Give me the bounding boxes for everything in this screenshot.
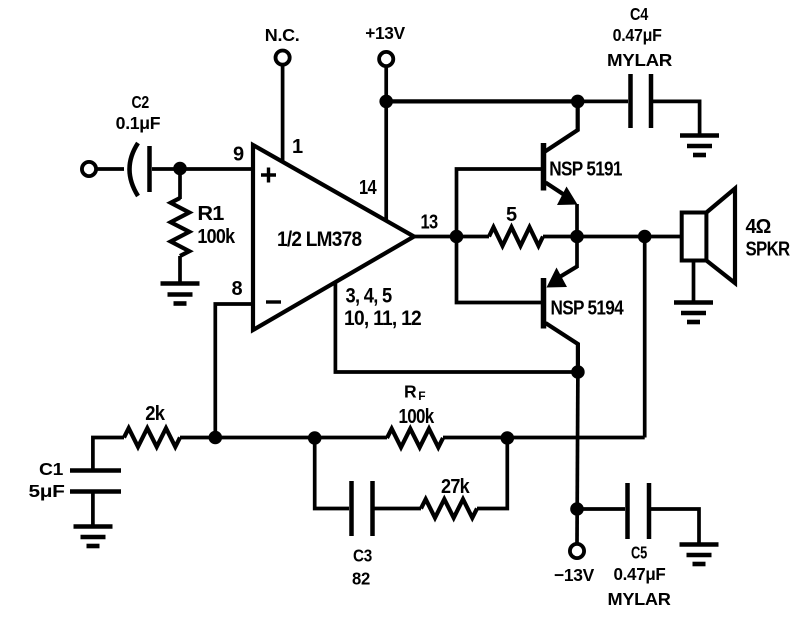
wire +13V to pin 14 xyxy=(384,66,388,221)
wire C4 to ground xyxy=(653,101,700,135)
svg-text:NSP 5191: NSP 5191 xyxy=(549,159,622,181)
svg-text:MYLAR: MYLAR xyxy=(607,50,673,70)
svg-text:27k: 27k xyxy=(441,476,471,498)
svg-text:13: 13 xyxy=(421,212,439,234)
plus mark xyxy=(261,168,276,183)
svg-text:SPKR: SPKR xyxy=(746,239,791,261)
ground at C5 xyxy=(680,545,719,565)
transistor Q2 NSP5194 xyxy=(541,278,547,329)
svg-text:3, 4, 5: 3, 4, 5 xyxy=(346,285,393,308)
wire -13V line xyxy=(575,372,580,544)
Q1/Q2 base rail xyxy=(457,169,542,303)
node junction at Q2 collector xyxy=(571,365,585,379)
svg-text:C3: C3 xyxy=(353,546,372,566)
resistor RF xyxy=(387,429,443,448)
svg-text:C4: C4 xyxy=(630,4,648,24)
svg-text:2k: 2k xyxy=(145,403,166,425)
ground at C4 xyxy=(680,136,719,156)
wire bias pins to -13V rail xyxy=(335,281,578,372)
ground under C1 xyxy=(74,527,113,547)
ground under speaker xyxy=(674,303,713,323)
wire R1 to ground xyxy=(178,256,182,283)
wire to C4 xyxy=(578,100,628,104)
capacitor C1 xyxy=(70,468,121,473)
svg-text:NSP 5194: NSP 5194 xyxy=(551,298,625,320)
resistor 27k xyxy=(421,499,477,518)
svg-text:F: F xyxy=(418,389,425,403)
node junction feedback takeoff xyxy=(638,230,652,244)
svg-text:1/2 LM378: 1/2 LM378 xyxy=(277,228,362,251)
node junction base rail on output line xyxy=(450,230,464,244)
svg-text:0.1μF: 0.1μF xyxy=(116,113,161,133)
wire speaker to ground xyxy=(692,261,696,303)
svg-text:10, 11, 12: 10, 11, 12 xyxy=(344,307,421,330)
svg-text:4Ω: 4Ω xyxy=(746,216,772,238)
node junction at C4 xyxy=(571,95,585,109)
capacitor C5 xyxy=(625,483,630,539)
wire to C3 branch xyxy=(315,438,349,509)
minus mark xyxy=(266,300,281,303)
wire output to feedback xyxy=(643,237,647,438)
wire op-amp output pin 13 xyxy=(414,235,489,239)
resistor 5 xyxy=(489,227,543,246)
svg-text:9: 9 xyxy=(233,144,244,166)
wire input to C2 xyxy=(96,167,124,171)
svg-text:R1: R1 xyxy=(197,203,224,225)
svg-text:0.47μF: 0.47μF xyxy=(614,564,667,584)
wire output node to speaker xyxy=(543,235,682,239)
svg-text:8: 8 xyxy=(232,278,243,300)
svg-text:R: R xyxy=(404,382,417,402)
svg-text:100k: 100k xyxy=(197,226,235,248)
input terminal xyxy=(82,162,96,176)
svg-text:C1: C1 xyxy=(39,459,64,479)
op-amp U1 1/2 LM378 xyxy=(253,145,414,330)
node junction at C5 xyxy=(570,502,584,516)
Q1 emitter wire with arrow xyxy=(546,183,567,197)
+13V terminal xyxy=(379,52,393,66)
svg-text:100k: 100k xyxy=(399,406,435,428)
wire C5 to ground xyxy=(651,509,699,544)
Q1 collector wire xyxy=(545,101,578,151)
svg-text:+13V: +13V xyxy=(365,23,405,43)
transistor Q1 NSP5191 xyxy=(541,143,547,191)
Q2 collector wire xyxy=(546,323,578,372)
resistor R1 xyxy=(171,198,190,256)
wire junction to R1 xyxy=(178,169,182,199)
node junction +13V rail xyxy=(379,95,393,109)
Q2 emitter wire with arrow xyxy=(575,237,579,269)
-13V terminal xyxy=(570,544,584,558)
svg-text:5: 5 xyxy=(506,204,517,226)
speaker SPKR xyxy=(682,213,707,261)
wire C2 to op-amp + input xyxy=(152,167,254,171)
svg-text:C5: C5 xyxy=(631,543,647,563)
svg-text:−13V: −13V xyxy=(554,565,595,585)
svg-text:MYLAR: MYLAR xyxy=(608,589,672,609)
svg-text:C2: C2 xyxy=(132,92,150,112)
wire C1 to ground xyxy=(91,494,95,527)
svg-text:1: 1 xyxy=(292,136,303,158)
node junction at R1 top xyxy=(173,162,187,176)
wire +13V rail xyxy=(386,99,578,103)
node junction emitters xyxy=(570,230,584,244)
wire 2k to C1 xyxy=(93,438,124,470)
svg-text:82: 82 xyxy=(352,569,371,589)
resistor 2k xyxy=(124,428,180,447)
capacitor C3 xyxy=(349,481,354,536)
svg-text:0.47μF: 0.47μF xyxy=(613,25,663,45)
wire 27k up to feedback xyxy=(477,438,507,509)
wire to C5 xyxy=(577,507,625,511)
ground under R1 xyxy=(161,284,200,304)
svg-text:N.C.: N.C. xyxy=(265,25,300,45)
node junction C3 branch left xyxy=(308,431,322,445)
node junction C3 branch right xyxy=(501,431,515,445)
capacitor C2 xyxy=(130,143,139,196)
wire C3 to 27k xyxy=(375,507,422,511)
wire N.C. to pin 1 xyxy=(281,65,285,164)
svg-text:5μF: 5μF xyxy=(29,481,66,501)
capacitor C4 xyxy=(628,74,633,128)
wire pin 8 xyxy=(215,304,253,438)
feedback line xyxy=(180,436,387,440)
node junction pin 8 / feedback xyxy=(209,431,223,445)
N.C. terminal xyxy=(276,51,290,65)
svg-text:14: 14 xyxy=(359,177,377,199)
